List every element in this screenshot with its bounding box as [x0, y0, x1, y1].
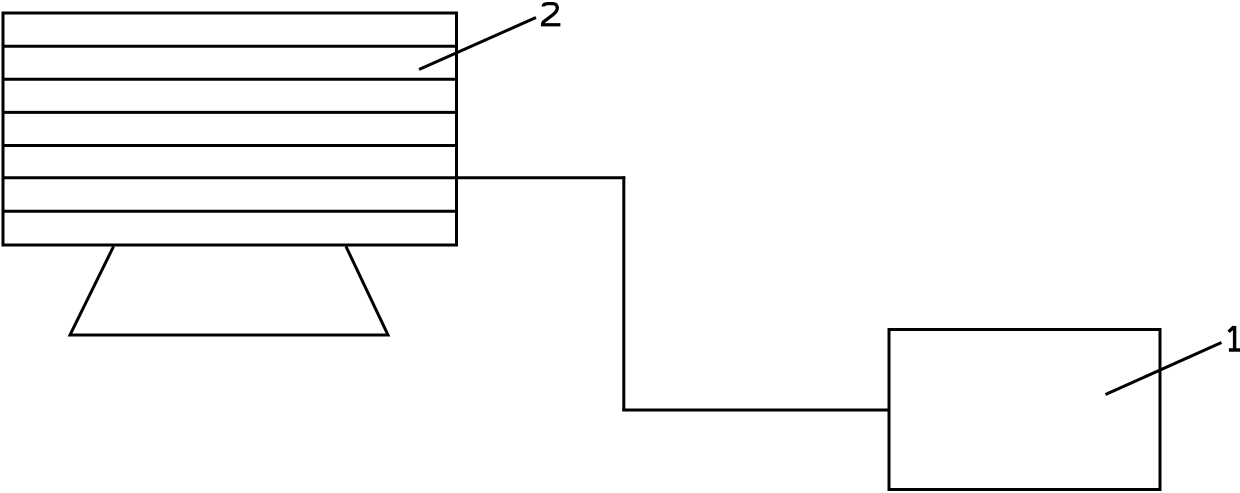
label 1 (digit drawn as path) — [1229, 326, 1240, 350]
leader line for label 2 — [419, 18, 536, 70]
stand: trapezoid base under component 2 — [70, 247, 388, 336]
layer line 2 of component 2 — [3, 78, 457, 81]
leader line for label 1 — [1106, 343, 1222, 395]
layer line 4 of component 2 — [3, 144, 457, 147]
label 2 (digit drawn as path) — [543, 4, 561, 25]
layer line 1 of component 2 — [3, 45, 457, 48]
layer line 5 of component 2 (extends as wire) — [3, 176, 457, 179]
wire: horizontal segment from component 2 right edge — [457, 176, 626, 179]
wire: horizontal segment into component 1 — [622, 409, 889, 412]
layer line 6 of component 2 — [3, 210, 457, 213]
component 2: layered stack (display) outer rectangle — [3, 13, 457, 245]
layer line 3 of component 2 — [3, 111, 457, 114]
component 1: box — [889, 330, 1160, 490]
wire: vertical segment — [622, 176, 625, 411]
